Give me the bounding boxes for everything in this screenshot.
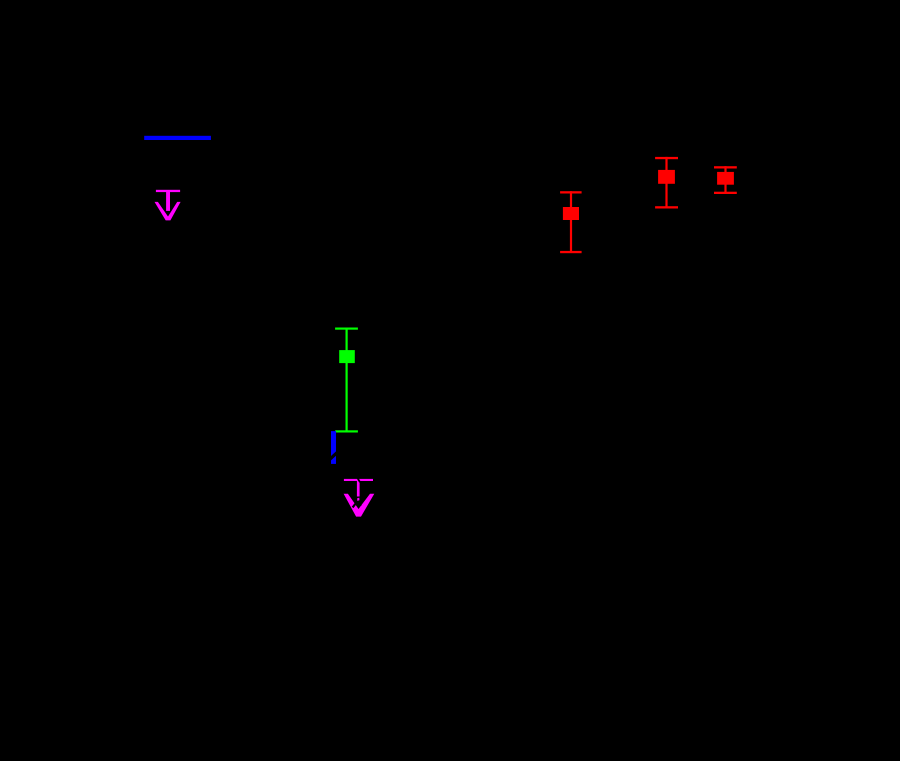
blue legend line sample (144, 136, 211, 140)
red data point 3 with error bars (714, 166, 737, 194)
magenta limit arrow 2 (344, 479, 375, 517)
red data point 1 with error bars (560, 191, 582, 253)
dash gap (black slash over blue line) (330, 452, 338, 459)
red data point 2 with error bars (655, 157, 678, 209)
magenta limit arrow 1 (legend sample) (155, 190, 181, 221)
green data point with error bars (335, 328, 358, 433)
black artifact slashes over arrow 2 (357, 478, 360, 482)
blue thick dashed vertical line (331, 431, 336, 464)
